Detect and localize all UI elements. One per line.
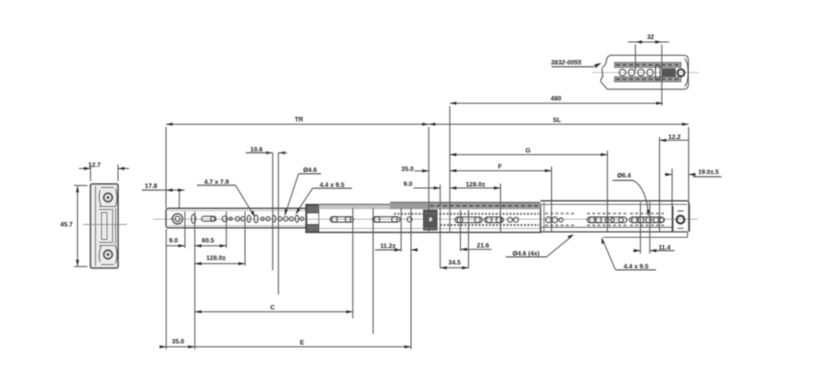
ball retainer top band xyxy=(319,205,391,209)
svg-text:9.0: 9.0 xyxy=(169,237,178,244)
svg-text:F: F xyxy=(498,164,502,171)
dim 32 (detail hole pitch) xyxy=(634,45,636,72)
cross-section view (left end view of slide) xyxy=(91,184,119,268)
dim F xyxy=(450,170,552,172)
ext 128.0 right xyxy=(244,212,246,266)
ext line TR/SL split xyxy=(428,127,430,232)
outer left member (drawer member) xyxy=(166,208,307,228)
retainer dash rows in overlap xyxy=(394,213,539,215)
detail end ring xyxy=(678,69,685,76)
section top raceway curl xyxy=(99,189,117,210)
svg-text:3832-0055: 3832-0055 xyxy=(551,60,582,67)
ext line 9.0 top right xyxy=(439,185,441,206)
dim 12.7 (section width) xyxy=(79,165,129,182)
dim TR xyxy=(166,123,429,125)
svg-text:21.6: 21.6 xyxy=(477,242,490,249)
dim 480 xyxy=(450,102,663,104)
svg-text:Ø6.4: Ø6.4 xyxy=(617,173,631,180)
ext line 10.6 left xyxy=(272,153,274,271)
ext first hole xyxy=(184,212,186,249)
detail latch block xyxy=(662,68,677,77)
dim C xyxy=(195,311,353,313)
overlap zone hole row xyxy=(455,217,519,223)
ext second hole long xyxy=(194,212,196,350)
ext line rail left end xyxy=(165,127,167,208)
dim 45.7 (section height) xyxy=(74,186,88,267)
dim SL xyxy=(429,123,689,125)
svg-text:128.0±: 128.0± xyxy=(466,181,486,188)
svg-text:Ø4.6: Ø4.6 xyxy=(303,167,317,174)
cabinet member retainer dashes xyxy=(545,214,664,226)
detail view centerline xyxy=(592,72,699,74)
svg-text:4.4 x 9.5: 4.4 x 9.5 xyxy=(624,263,649,270)
detail inner top bar xyxy=(615,62,682,67)
svg-text:SL: SL xyxy=(553,117,561,124)
svg-text:C: C xyxy=(270,305,275,312)
detail inner bottom bar xyxy=(615,77,682,82)
ext line 17.8 hole xyxy=(178,190,180,208)
grommet hole left end xyxy=(172,214,182,224)
section bottom raceway curl xyxy=(99,243,117,264)
ext rail left end long xyxy=(165,229,167,349)
svg-text:19.0±.5: 19.0±.5 xyxy=(698,169,719,176)
ext 21.6 xyxy=(459,210,461,251)
ext line 480 left xyxy=(449,106,451,232)
svg-text:Ø4.6 (4x): Ø4.6 (4x) xyxy=(513,250,540,257)
ball bottom xyxy=(104,250,113,259)
detail view outline with break line xyxy=(601,55,611,89)
svg-text:34.5: 34.5 xyxy=(448,260,461,267)
ext C right xyxy=(352,208,354,319)
intermediate member body xyxy=(306,205,541,233)
ext line F right xyxy=(551,167,553,232)
ext mid unlabeled xyxy=(372,208,374,334)
ext 60.5 right xyxy=(225,212,227,249)
svg-text:9.0: 9.0 xyxy=(404,181,413,188)
ext line SL right / rail end xyxy=(688,127,690,232)
section inner left wall xyxy=(95,186,97,266)
main view horizontal centerline xyxy=(153,218,698,220)
ext line 19.0 left xyxy=(671,169,673,232)
ext 34.5 right xyxy=(468,210,470,268)
extension lines lower xyxy=(166,202,650,349)
ext line G right xyxy=(606,151,608,232)
section middle web xyxy=(102,213,108,240)
dim 19.0 +-0.5 xyxy=(665,174,673,176)
dim 128.0 top xyxy=(450,187,501,189)
svg-text:45.7: 45.7 xyxy=(60,222,73,229)
svg-text:32: 32 xyxy=(647,34,655,41)
ext 11.4 right xyxy=(649,202,651,254)
section outer body xyxy=(91,184,119,268)
svg-text:12.7: 12.7 xyxy=(88,162,101,169)
cabinet member hole row xyxy=(546,217,665,223)
ext line 10.6 right xyxy=(277,153,279,295)
ext 11.4 left xyxy=(639,202,641,254)
ext line 128.0 top right xyxy=(500,184,502,232)
intermediate member left end cap xyxy=(307,205,319,212)
section horizontal centerline xyxy=(83,224,127,226)
detail right bracket xyxy=(685,59,689,87)
detail ball row xyxy=(619,66,660,81)
intermediate member hole row xyxy=(330,217,412,223)
right end cap and latch xyxy=(672,206,674,232)
ext 34.5 left xyxy=(439,208,441,268)
svg-text:TR: TR xyxy=(295,117,304,124)
cabinet member (right section) rails xyxy=(543,202,545,231)
ball top xyxy=(104,193,113,202)
extension lines upper xyxy=(166,106,689,295)
ext line 12.2 left xyxy=(659,137,661,232)
ext E right long xyxy=(410,208,412,349)
svg-text:E: E xyxy=(300,339,305,346)
svg-text:128.0±: 128.0± xyxy=(206,255,226,262)
svg-text:480: 480 xyxy=(551,95,562,102)
svg-text:35.0: 35.0 xyxy=(172,338,185,345)
dim G xyxy=(450,154,608,156)
svg-text:60.5: 60.5 xyxy=(202,237,215,244)
svg-text:17.8: 17.8 xyxy=(145,183,158,190)
left member hole row xyxy=(191,214,304,223)
svg-text:11.2±: 11.2± xyxy=(380,243,396,250)
svg-text:35.0: 35.0 xyxy=(401,166,414,173)
dim E xyxy=(195,346,411,348)
svg-text:G: G xyxy=(526,147,531,154)
inner member front end block xyxy=(424,210,438,230)
ext 11.2 left xyxy=(400,208,402,252)
